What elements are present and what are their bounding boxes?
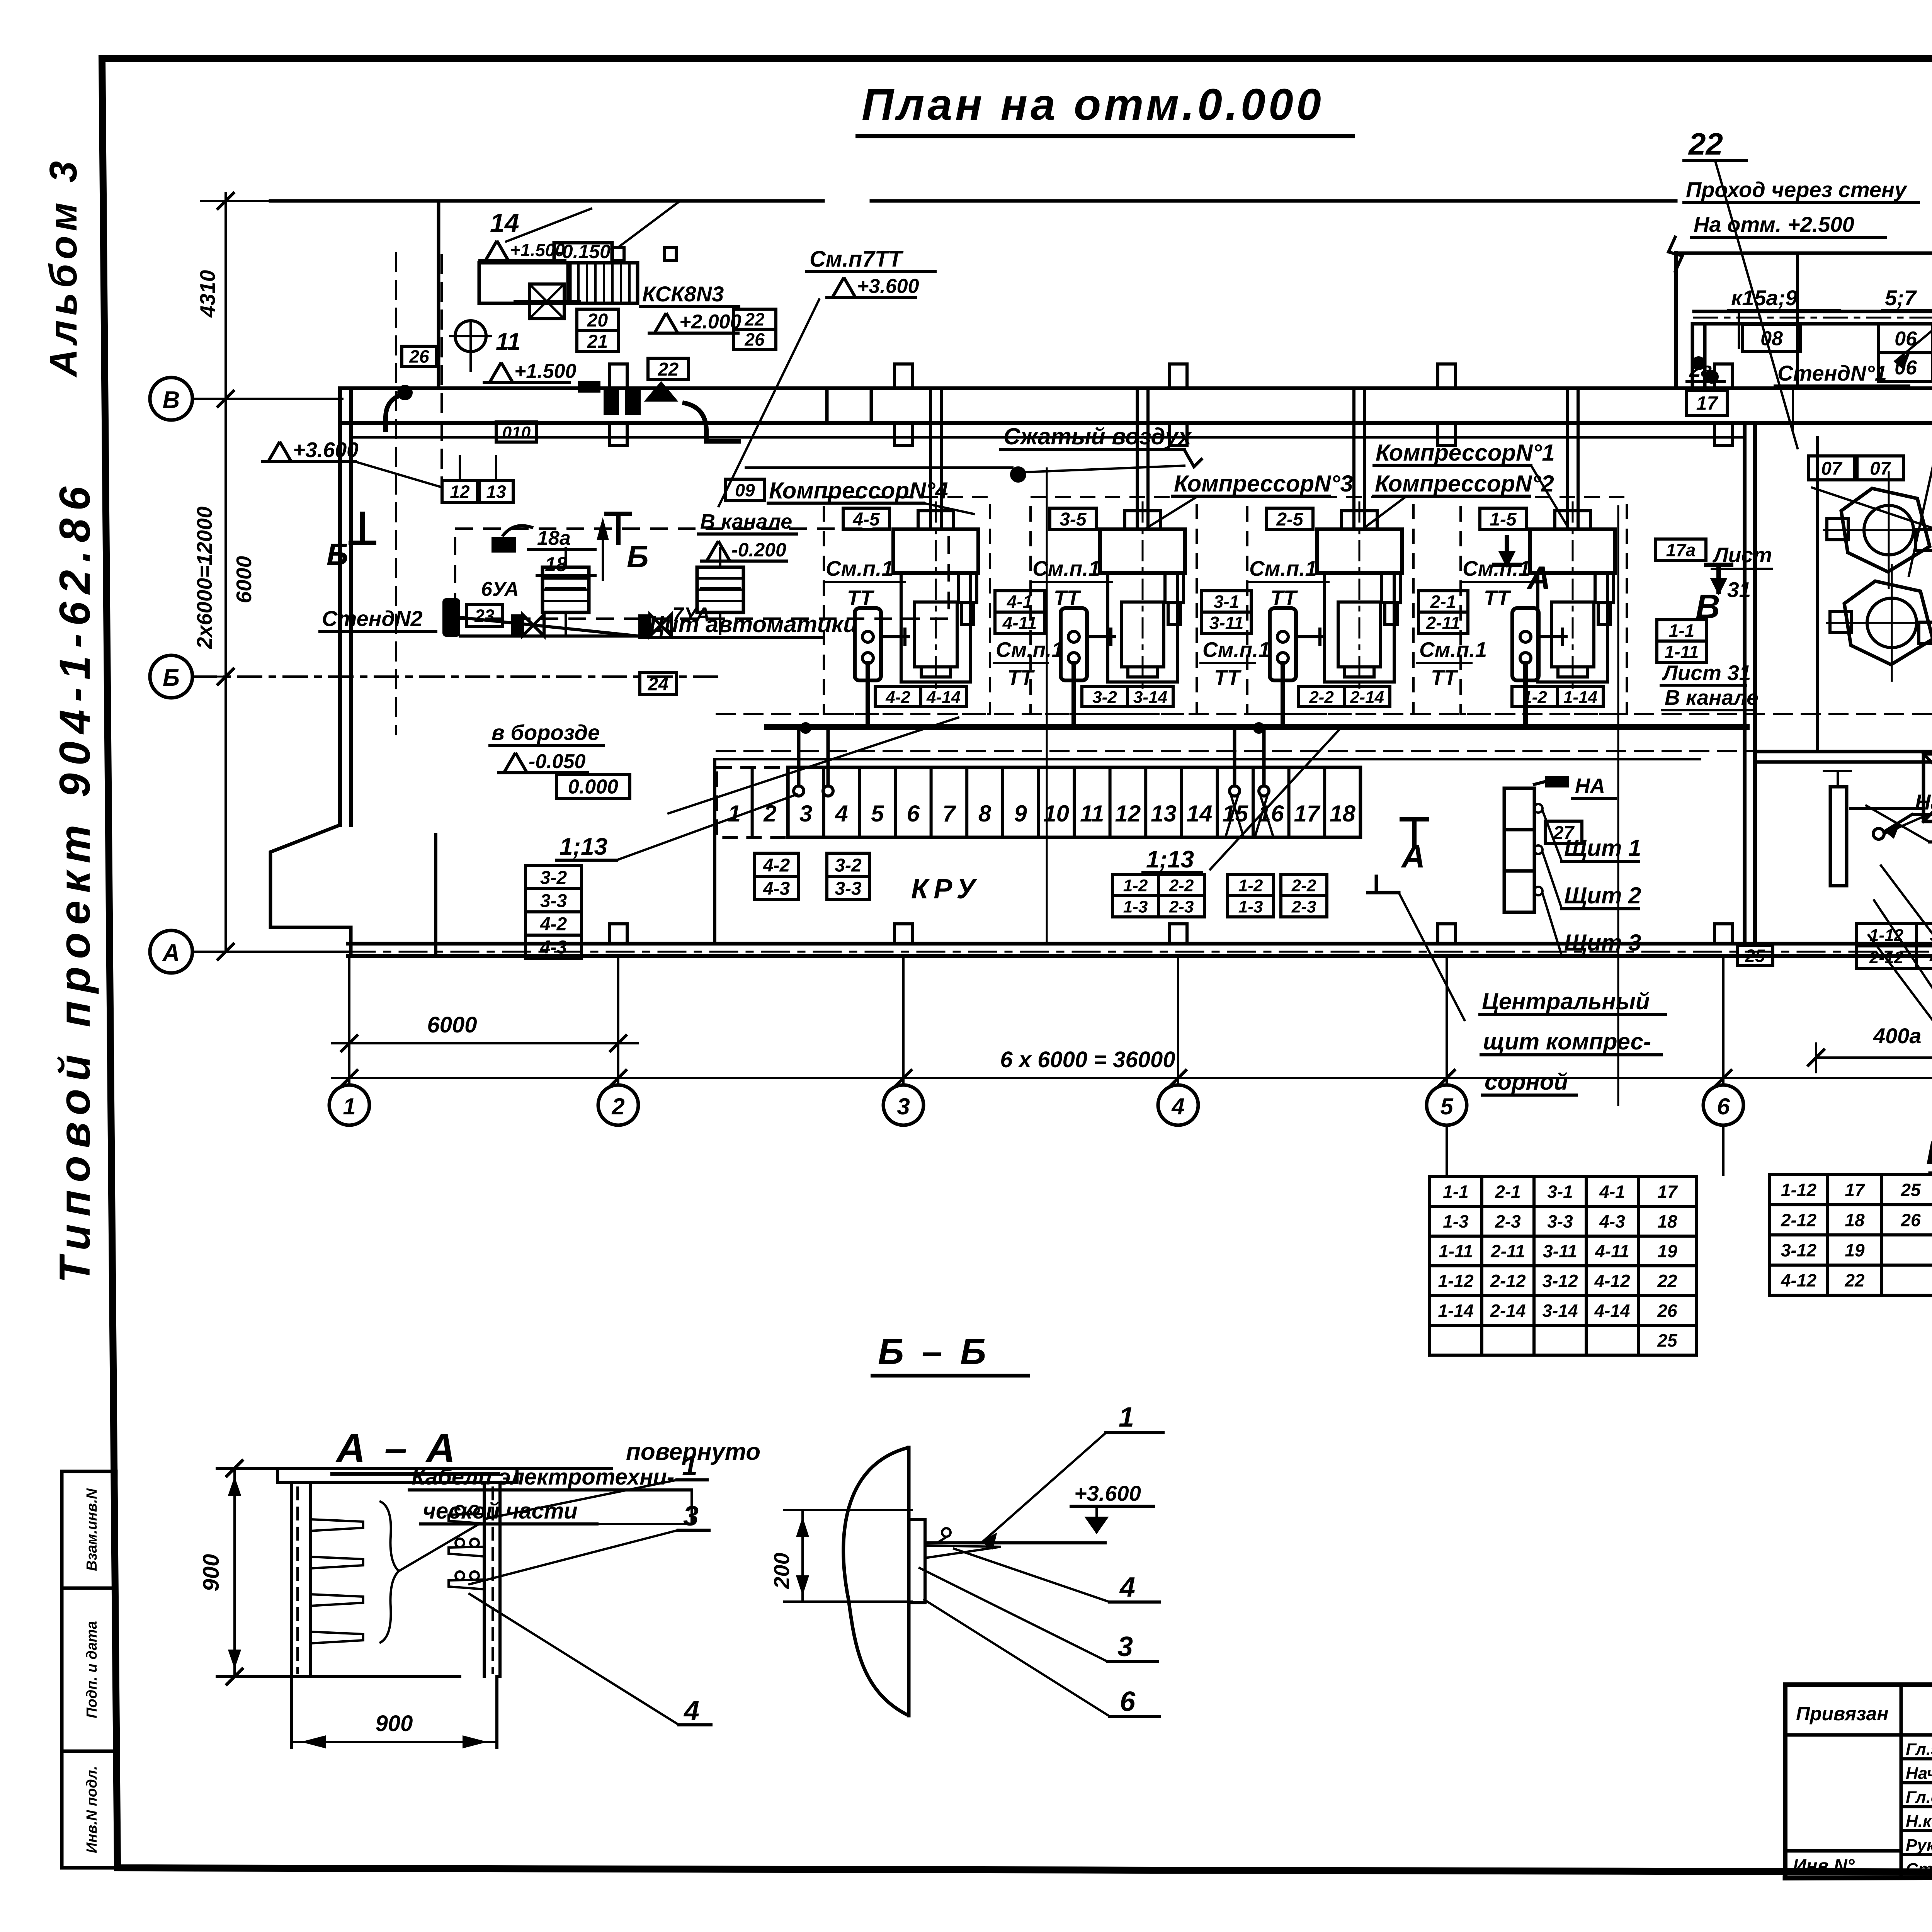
- svg-text:Взам.инв.N: Взам.инв.N: [84, 1488, 100, 1571]
- svg-text:24: 24: [648, 674, 668, 694]
- svg-text:4-3: 4-3: [1599, 1211, 1625, 1231]
- svg-text:13: 13: [1151, 801, 1177, 827]
- svg-text:3: 3: [683, 1501, 699, 1532]
- svg-text:ТТ: ТТ: [1484, 586, 1512, 610]
- svg-text:+1.500: +1.500: [514, 360, 577, 383]
- svg-text:010: 010: [502, 423, 531, 442]
- svg-text:3-1: 3-1: [1214, 592, 1239, 612]
- svg-text:КомпрессорN°1: КомпрессорN°1: [1376, 440, 1555, 466]
- svg-text:3-1: 3-1: [1547, 1182, 1573, 1202]
- svg-text:Б – Б: Б – Б: [878, 1331, 990, 1372]
- svg-text:КРУ: КРУ: [911, 874, 981, 905]
- svg-text:19: 19: [1657, 1241, 1677, 1261]
- svg-text:3: 3: [799, 801, 812, 827]
- svg-text:+3.600: +3.600: [1074, 1481, 1141, 1505]
- svg-text:На отм. +2.500: На отм. +2.500: [1694, 212, 1854, 236]
- svg-text:Рук.гр.: Рук.гр.: [1906, 1836, 1932, 1855]
- svg-text:14: 14: [490, 208, 519, 238]
- svg-text:12: 12: [450, 482, 470, 502]
- svg-text:См.п.1: См.п.1: [1202, 638, 1270, 662]
- svg-text:17: 17: [1845, 1180, 1866, 1200]
- svg-text:25: 25: [1900, 1180, 1921, 1200]
- svg-text:17а: 17а: [1666, 540, 1696, 560]
- svg-text:7: 7: [942, 801, 956, 827]
- svg-text:Н.контр: Н.контр: [1906, 1812, 1932, 1831]
- svg-text:2-3: 2-3: [1495, 1211, 1521, 1231]
- svg-text:Инв.N подл.: Инв.N подл.: [84, 1766, 100, 1853]
- svg-text:ТТ: ТТ: [1270, 586, 1298, 610]
- svg-text:1;13: 1;13: [1146, 846, 1194, 873]
- svg-text:4-1: 4-1: [1007, 592, 1032, 612]
- svg-text:3-14: 3-14: [1133, 688, 1167, 707]
- svg-text:КомпрессорN°3: КомпрессорN°3: [1174, 471, 1353, 497]
- svg-text:900: 900: [199, 1554, 224, 1592]
- svg-text:6 x 6000 = 36000: 6 x 6000 = 36000: [1000, 1047, 1175, 1072]
- svg-text:См.п.1: См.п.1: [1463, 556, 1530, 580]
- svg-text:1-14: 1-14: [1563, 688, 1597, 707]
- svg-text:10: 10: [1043, 801, 1069, 827]
- svg-text:4-2: 4-2: [763, 855, 790, 876]
- svg-text:18: 18: [1330, 801, 1355, 827]
- svg-text:к15а;9: к15а;9: [1731, 286, 1798, 310]
- svg-text:07: 07: [1821, 458, 1843, 479]
- svg-text:4-11: 4-11: [1595, 1241, 1629, 1261]
- svg-text:ТТ: ТТ: [1054, 586, 1082, 610]
- svg-text:3-12: 3-12: [1930, 926, 1932, 945]
- svg-text:08: 08: [1760, 328, 1783, 350]
- svg-text:1-2: 1-2: [1238, 876, 1263, 895]
- svg-text:СтендN°1: СтендN°1: [1777, 361, 1887, 385]
- svg-text:А: А: [1526, 560, 1551, 597]
- svg-text:4-2: 4-2: [885, 688, 910, 707]
- svg-text:19: 19: [1845, 1240, 1865, 1260]
- svg-text:09: 09: [735, 480, 755, 500]
- svg-text:1-12: 1-12: [1781, 1180, 1816, 1200]
- svg-text:Нач.отд.: Нач.отд.: [1906, 1764, 1932, 1783]
- svg-text:Гл.энерг: Гл.энерг: [1906, 1740, 1932, 1759]
- svg-text:26: 26: [1900, 1210, 1921, 1230]
- svg-text:25: 25: [1657, 1330, 1678, 1350]
- svg-text:В канале: В канале: [700, 510, 792, 533]
- svg-text:В канале: В канале: [1665, 685, 1759, 709]
- svg-text:1-1: 1-1: [1669, 621, 1694, 641]
- svg-text:22: 22: [1657, 1271, 1677, 1291]
- svg-text:11: 11: [1080, 801, 1104, 827]
- svg-text:СтендN2: СтендN2: [322, 606, 423, 631]
- svg-text:+3.600: +3.600: [857, 275, 919, 298]
- svg-text:Копировал Генюк Кальку сверил: Копировал Генюк Кальку сверил Посупонько: [719, 1928, 1423, 1932]
- svg-text:2-3: 2-3: [1291, 897, 1316, 916]
- svg-text:НА: НА: [1575, 774, 1605, 798]
- svg-text:1: 1: [1119, 1402, 1134, 1433]
- svg-text:2-14: 2-14: [1350, 688, 1384, 707]
- svg-text:См.п.1: См.п.1: [1419, 638, 1487, 662]
- svg-text:1-3: 1-3: [1443, 1211, 1469, 1231]
- svg-text:17: 17: [1696, 393, 1719, 414]
- svg-text:Щит автоматики: Щит автоматики: [641, 611, 857, 637]
- svg-text:в борозде: в борозде: [492, 720, 600, 745]
- svg-text:5: 5: [1440, 1094, 1454, 1119]
- svg-text:Гл.спец.: Гл.спец.: [1906, 1788, 1932, 1807]
- svg-text:17: 17: [1657, 1182, 1678, 1202]
- svg-text:Подп. и дата: Подп. и дата: [84, 1621, 100, 1718]
- svg-text:4: 4: [1119, 1572, 1135, 1603]
- svg-text:6000: 6000: [232, 556, 256, 603]
- svg-text:2-12: 2-12: [1490, 1271, 1526, 1291]
- svg-text:1-12: 1-12: [1869, 926, 1904, 945]
- svg-text:Центральный щит компрессорно: Центральный щит компрессорной: [1926, 1134, 1932, 1171]
- svg-text:3-14: 3-14: [1542, 1301, 1578, 1321]
- svg-text:3-2: 3-2: [1092, 688, 1117, 707]
- svg-text:4-14: 4-14: [1594, 1301, 1630, 1321]
- svg-text:26: 26: [1657, 1301, 1677, 1321]
- svg-text:3-11: 3-11: [1209, 613, 1244, 633]
- svg-text:Альбом 3: Альбом 3: [42, 156, 85, 378]
- svg-text:6: 6: [907, 801, 920, 827]
- svg-text:1-2: 1-2: [1522, 688, 1547, 707]
- svg-text:-0.150: -0.150: [556, 241, 611, 262]
- svg-text:5;7: 5;7: [1885, 286, 1917, 310]
- svg-text:4: 4: [1171, 1094, 1184, 1119]
- svg-text:См.п.1: См.п.1: [1032, 556, 1100, 580]
- svg-text:3-12: 3-12: [1542, 1271, 1578, 1291]
- svg-text:+3.600: +3.600: [293, 438, 359, 462]
- svg-text:1-11: 1-11: [1665, 642, 1699, 662]
- svg-text:18: 18: [1657, 1211, 1677, 1231]
- svg-text:3-3: 3-3: [835, 878, 862, 899]
- svg-text:6: 6: [1717, 1094, 1730, 1119]
- svg-text:А: А: [162, 940, 180, 966]
- svg-text:3-3: 3-3: [1547, 1211, 1573, 1231]
- svg-text:2-3: 2-3: [1169, 897, 1194, 916]
- svg-text:16: 16: [1258, 801, 1284, 827]
- svg-text:2-2: 2-2: [1309, 688, 1334, 707]
- svg-text:Б: Б: [327, 537, 349, 571]
- svg-text:4-1: 4-1: [1599, 1182, 1625, 1202]
- svg-text:2-12: 2-12: [1781, 1210, 1816, 1230]
- svg-text:2-2: 2-2: [1291, 876, 1316, 895]
- svg-text:2-11: 2-11: [1426, 613, 1461, 633]
- svg-text:См.п7ТТ: См.п7ТТ: [810, 247, 904, 272]
- svg-text:Инв N°: Инв N°: [1793, 1856, 1855, 1876]
- svg-text:4-3: 4-3: [763, 878, 790, 899]
- svg-text:22: 22: [1688, 127, 1723, 161]
- svg-text:Привязан: Привязан: [1796, 1703, 1889, 1725]
- svg-text:22: 22: [658, 359, 679, 380]
- svg-text:1-1: 1-1: [1443, 1182, 1468, 1202]
- svg-text:КомпрессорN°2: КомпрессорN°2: [1375, 471, 1554, 497]
- svg-text:4-2: 4-2: [540, 914, 567, 934]
- svg-text:4-12: 4-12: [1594, 1271, 1630, 1291]
- svg-text:21: 21: [587, 332, 608, 352]
- svg-text:15: 15: [1222, 801, 1248, 827]
- svg-text:См.п.1: См.п.1: [826, 556, 893, 580]
- svg-text:План на отм.0.000: План на отм.0.000: [862, 80, 1324, 129]
- svg-text:3: 3: [1117, 1631, 1133, 1662]
- svg-text:4: 4: [683, 1696, 699, 1726]
- svg-text:1-12: 1-12: [1438, 1271, 1473, 1291]
- svg-text:1-11: 1-11: [1439, 1241, 1473, 1261]
- svg-text:200: 200: [769, 1553, 794, 1589]
- svg-text:18а: 18а: [537, 527, 571, 549]
- svg-text:сорной: сорной: [1485, 1069, 1568, 1095]
- svg-text:Центральный: Центральный: [1482, 988, 1650, 1014]
- svg-text:2-12: 2-12: [1869, 948, 1904, 967]
- svg-text:ТТ: ТТ: [847, 586, 875, 610]
- svg-text:12: 12: [1115, 801, 1141, 827]
- svg-text:6УА: 6УА: [481, 578, 519, 600]
- svg-text:КСК8N3: КСК8N3: [642, 282, 724, 306]
- svg-text:22: 22: [744, 310, 765, 330]
- svg-text:6: 6: [1120, 1686, 1136, 1717]
- svg-text:11: 11: [496, 328, 520, 355]
- svg-text:Б: Б: [627, 539, 649, 574]
- svg-text:1: 1: [343, 1094, 355, 1119]
- svg-text:1-14: 1-14: [1438, 1301, 1473, 1321]
- svg-text:8: 8: [978, 801, 992, 827]
- svg-text:КомпрессорN°4: КомпрессорN°4: [769, 478, 948, 503]
- svg-text:2-14: 2-14: [1490, 1301, 1526, 1321]
- svg-text:2: 2: [611, 1094, 624, 1119]
- svg-text:14: 14: [1187, 801, 1213, 827]
- svg-text:20: 20: [587, 310, 608, 331]
- svg-text:-0.200: -0.200: [731, 539, 786, 561]
- svg-text:4-12: 4-12: [1929, 948, 1932, 967]
- svg-text:4-12: 4-12: [1781, 1270, 1816, 1291]
- svg-text:Б: Б: [163, 665, 180, 691]
- svg-text:См.п.1: См.п.1: [1249, 556, 1317, 580]
- svg-text:1-3: 1-3: [1123, 897, 1148, 916]
- svg-text:2-1: 2-1: [1495, 1182, 1520, 1202]
- svg-text:26: 26: [744, 330, 765, 350]
- svg-text:1: 1: [728, 801, 741, 827]
- svg-text:4310: 4310: [196, 270, 219, 318]
- svg-text:13: 13: [486, 482, 506, 502]
- svg-text:2x6000=12000: 2x6000=12000: [192, 506, 216, 649]
- svg-text:23: 23: [474, 606, 495, 626]
- svg-text:3-3: 3-3: [540, 891, 567, 911]
- svg-text:6000: 6000: [427, 1012, 477, 1037]
- svg-text:Щит 1: Щит 1: [1564, 835, 1641, 861]
- svg-text:3-2: 3-2: [835, 855, 862, 876]
- svg-text:4-14: 4-14: [926, 688, 961, 707]
- svg-text:1-2: 1-2: [1123, 876, 1148, 895]
- svg-text:3-11: 3-11: [1543, 1241, 1577, 1261]
- svg-text:Лист 31: Лист 31: [1662, 661, 1751, 685]
- svg-text:2-5: 2-5: [1276, 509, 1304, 530]
- svg-text:4: 4: [835, 801, 848, 827]
- svg-text:3-2: 3-2: [540, 867, 567, 888]
- svg-text:4-5: 4-5: [852, 509, 880, 530]
- svg-text:-0.050: -0.050: [529, 750, 586, 773]
- svg-text:2-2: 2-2: [1169, 876, 1194, 895]
- svg-text:900: 900: [376, 1711, 413, 1736]
- svg-text:31: 31: [1727, 578, 1751, 602]
- svg-text:4-3: 4-3: [540, 937, 567, 957]
- svg-text:1;13: 1;13: [560, 833, 607, 860]
- svg-text:ТТ: ТТ: [1431, 665, 1459, 689]
- svg-text:Проход через стену: Проход через стену: [1686, 177, 1908, 202]
- svg-text:9: 9: [1014, 801, 1027, 827]
- svg-text:22: 22: [1844, 1270, 1865, 1291]
- svg-text:щит компрес-: щит компрес-: [1483, 1029, 1651, 1054]
- svg-text:18: 18: [545, 553, 567, 576]
- svg-text:ТТ: ТТ: [1214, 665, 1242, 689]
- svg-text:3: 3: [897, 1094, 910, 1119]
- svg-text:1: 1: [682, 1451, 697, 1481]
- svg-text:3-5: 3-5: [1060, 509, 1087, 530]
- svg-text:3-12: 3-12: [1781, 1240, 1816, 1260]
- svg-text:25: 25: [1745, 946, 1765, 966]
- svg-text:2-1: 2-1: [1430, 592, 1456, 612]
- svg-text:Типовой проект 904-1-62.86: Типовой проект 904-1-62.86: [51, 479, 99, 1283]
- svg-text:26: 26: [409, 347, 429, 367]
- svg-text:Щит 2: Щит 2: [1564, 883, 1641, 908]
- svg-text:В: В: [163, 387, 180, 413]
- svg-text:1-5: 1-5: [1490, 509, 1517, 530]
- svg-text:2-11: 2-11: [1490, 1241, 1525, 1261]
- svg-text:0.000: 0.000: [568, 776, 618, 798]
- svg-text:Щит 3: Щит 3: [1564, 930, 1641, 956]
- svg-text:400а: 400а: [1873, 1024, 1922, 1048]
- svg-text:18: 18: [1845, 1210, 1865, 1230]
- svg-text:Ст.инж.: Ст.инж.: [1906, 1860, 1932, 1879]
- svg-text:5: 5: [871, 801, 884, 827]
- svg-text:1-3: 1-3: [1238, 897, 1263, 916]
- svg-text:17: 17: [1294, 801, 1321, 827]
